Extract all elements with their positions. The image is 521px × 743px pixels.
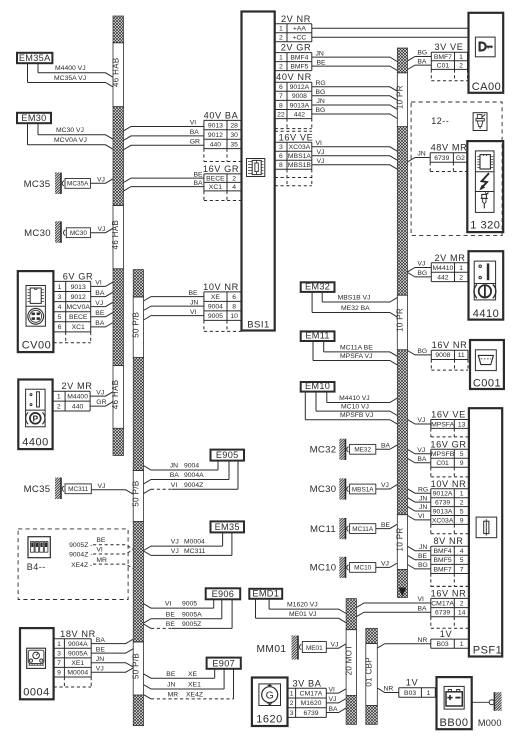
wire XE BE from 50 P/B to BSI1 xyxy=(144,290,204,301)
ground MM01 xyxy=(257,636,327,660)
svg-text:16V GR: 16V GR xyxy=(430,439,466,449)
svg-text:M1620: M1620 xyxy=(301,700,322,707)
svg-text:MBS1A: MBS1A xyxy=(352,486,374,493)
svg-text:VJ: VJ xyxy=(98,226,106,233)
svg-text:JN: JN xyxy=(190,299,198,306)
svg-text:MC35A VJ: MC35A VJ xyxy=(54,75,86,82)
svg-text:1: 1 xyxy=(460,641,464,648)
svg-text:0004: 0004 xyxy=(23,687,49,699)
svg-text:BA: BA xyxy=(381,443,391,450)
svg-text:B03: B03 xyxy=(437,641,449,648)
svg-text:9012A: 9012A xyxy=(433,491,453,498)
svg-text:XC03A: XC03A xyxy=(432,517,454,524)
svg-text:1: 1 xyxy=(459,54,463,61)
svg-text:3V BA: 3V BA xyxy=(292,678,321,688)
ECU BSI1 xyxy=(242,12,275,331)
svg-text:M4400: M4400 xyxy=(67,394,88,401)
svg-text:VI: VI xyxy=(165,601,172,608)
svg-text:3V VE: 3V VE xyxy=(434,42,463,52)
wire 9008 BG to 10 PR xyxy=(312,89,398,100)
wire 9004Z VI from B4 to 50 P/B (dashed) xyxy=(69,547,133,559)
svg-text:BA: BA xyxy=(417,456,427,463)
svg-text:NR: NR xyxy=(384,686,394,693)
ignition switch CA00 xyxy=(469,13,504,93)
connector table 1V (BB00) xyxy=(399,678,436,698)
svg-text:BMF7: BMF7 xyxy=(434,566,452,573)
generator 1620 xyxy=(252,678,288,727)
svg-text:VI: VI xyxy=(95,280,102,287)
svg-text:1: 1 xyxy=(427,690,431,697)
svg-text:10 PR: 10 PR xyxy=(395,85,404,109)
svg-text:10: 10 xyxy=(230,313,238,320)
wire B03 NR to battery xyxy=(377,686,399,693)
svg-text:9013A: 9013A xyxy=(433,509,453,516)
svg-text:M1620 VJ: M1620 VJ xyxy=(287,602,318,609)
svg-text:BECE: BECE xyxy=(206,176,225,183)
wire 6739 BA from 20 MOT to PSF1 xyxy=(357,605,431,616)
wire 9013A JN from 10 PR to PSF1 xyxy=(408,504,431,511)
svg-text:35: 35 xyxy=(230,141,238,148)
wire 442 BG to 10 PR xyxy=(312,107,398,118)
svg-text:6: 6 xyxy=(279,153,283,160)
svg-text:BE: BE xyxy=(166,671,176,678)
svg-text:16V VE: 16V VE xyxy=(279,132,314,142)
svg-text:NR: NR xyxy=(418,637,428,644)
splice EM35A xyxy=(17,53,52,63)
svg-text:442: 442 xyxy=(437,274,449,281)
svg-text:MCV0A: MCV0A xyxy=(66,304,90,311)
svg-text:BMF7: BMF7 xyxy=(434,54,452,61)
wire M4400 VJ from EM35A to 46 HAB xyxy=(38,63,113,77)
svg-text:VJ: VJ xyxy=(97,176,105,183)
svg-text:20 MOT: 20 MOT xyxy=(344,644,353,675)
svg-text:48V MR: 48V MR xyxy=(431,143,468,153)
ground MC35 (top) xyxy=(24,173,113,195)
wire 6739 JN from 10 PR to 1320 table xyxy=(408,151,431,162)
svg-text:9004A: 9004A xyxy=(68,641,88,648)
svg-text:5: 5 xyxy=(460,451,464,458)
svg-text:BE: BE xyxy=(317,59,327,66)
wire BMF5 BE from 10 PR to PSF1 xyxy=(408,553,431,560)
svg-text:BE: BE xyxy=(194,171,204,178)
svg-text:JN: JN xyxy=(316,50,324,57)
svg-text:46 HAB: 46 HAB xyxy=(111,380,120,410)
svg-text:GR: GR xyxy=(96,399,106,406)
connector table 16V VE (PSF1) xyxy=(431,410,469,437)
svg-text:BE: BE xyxy=(381,522,391,529)
handbrake unit 4400 xyxy=(18,380,52,450)
svg-text:9013: 9013 xyxy=(208,123,223,130)
diagnostic connector C001 xyxy=(470,340,504,390)
wire ME01 VJ from MM01 to 20 MOT xyxy=(326,641,346,648)
connector table 16V GR (PSF1) xyxy=(430,439,469,477)
svg-text:MC10: MC10 xyxy=(310,563,337,574)
switch unit 4410 xyxy=(469,251,504,320)
svg-text:VI: VI xyxy=(96,547,103,554)
svg-text:RG: RG xyxy=(316,80,326,87)
svg-text:BA: BA xyxy=(95,290,105,297)
wire 9012A RG from 10 PR to PSF1 xyxy=(408,486,431,493)
svg-text:2: 2 xyxy=(279,35,283,42)
svg-text:1: 1 xyxy=(279,26,283,33)
wire M0004 VJ from 50 P/B to EM35 xyxy=(144,532,223,550)
wire MC11A BE from EM11 to 10 PR xyxy=(324,341,398,356)
svg-text:EM10: EM10 xyxy=(305,381,330,391)
svg-text:B4--: B4-- xyxy=(27,562,46,572)
svg-text:MC35: MC35 xyxy=(24,484,51,495)
control unit CV00 xyxy=(18,271,54,352)
svg-text:14: 14 xyxy=(458,610,466,617)
svg-text:22: 22 xyxy=(277,112,285,119)
wire MPSFA VJ from EM11 to 10 PR xyxy=(313,341,397,365)
svg-text:BE: BE xyxy=(418,553,428,560)
wire MC10 VJ from EM10 to 10 PR xyxy=(316,392,397,416)
svg-text:MC35: MC35 xyxy=(24,179,51,190)
injector icon box xyxy=(473,113,487,131)
svg-text:9013A: 9013A xyxy=(290,102,310,109)
wire 440 GR from 4400 to 46 HAB xyxy=(90,399,113,406)
svg-text:VI: VI xyxy=(171,482,178,489)
svg-text:M4410: M4410 xyxy=(433,265,454,272)
svg-text:BA: BA xyxy=(95,320,105,327)
svg-text:XE4Z -: XE4Z - xyxy=(71,562,92,569)
svg-text:GR: GR xyxy=(190,139,200,146)
svg-text:6739: 6739 xyxy=(434,155,449,162)
svg-text:BA: BA xyxy=(96,637,106,644)
svg-text:C01: C01 xyxy=(437,63,450,70)
svg-text:6739: 6739 xyxy=(435,500,450,507)
svg-text:1V: 1V xyxy=(406,678,419,688)
svg-text:MPSFB VJ: MPSFB VJ xyxy=(340,412,373,419)
svg-text:6: 6 xyxy=(58,324,62,331)
svg-text:BG: BG xyxy=(316,107,326,114)
svg-text:BMF4: BMF4 xyxy=(290,55,308,62)
svg-text:9005Z: 9005Z xyxy=(182,621,201,628)
svg-text:4: 4 xyxy=(58,304,62,311)
svg-text:6739: 6739 xyxy=(303,710,318,717)
svg-text:VJ: VJ xyxy=(381,561,389,568)
svg-text:9005: 9005 xyxy=(208,313,223,320)
connector table 48V MR (1320) xyxy=(430,143,467,172)
connector table 16V GR (BSI1) xyxy=(203,164,242,201)
wire 9005 VI from 50 P/B to BSI1 xyxy=(144,309,204,320)
svg-text:MC30 VJ: MC30 VJ xyxy=(56,127,84,134)
connector table 40V NR (BSI1) xyxy=(275,72,312,128)
svg-text:1620: 1620 xyxy=(256,714,282,726)
svg-text:G: G xyxy=(266,690,274,702)
wire MBS1B VJ from EM32 to 10 PR xyxy=(322,292,397,302)
svg-text:RG: RG xyxy=(418,486,428,493)
svg-text:EM35A: EM35A xyxy=(19,53,51,63)
wire BECE BE from CV00 to 46 HAB xyxy=(91,310,113,317)
svg-text:442: 442 xyxy=(294,112,306,119)
connector table 3V BA (1620) xyxy=(288,678,327,717)
svg-text:2: 2 xyxy=(460,600,464,607)
svg-text:M4400 VJ: M4400 VJ xyxy=(55,65,86,72)
ground MC35 (lower) xyxy=(24,478,134,500)
svg-text:VJ: VJ xyxy=(417,261,425,268)
svg-text:9: 9 xyxy=(460,460,464,467)
svg-text:BA: BA xyxy=(170,472,180,479)
wire BMF4 JN from 10 PR to PSF1 xyxy=(408,544,431,551)
ground MC32 xyxy=(310,439,398,460)
wire B03 NR from 01 CBP to PSF1 xyxy=(377,637,431,648)
connector table 2V MR (4400) xyxy=(53,381,93,411)
connector table 16V NR (C001) xyxy=(431,340,468,370)
svg-text:MPSFA: MPSFA xyxy=(431,421,455,428)
svg-text:XE1: XE1 xyxy=(71,660,84,667)
wire 442 BG from 10 PR to 4410 table xyxy=(408,270,432,277)
svg-text:MC35A: MC35A xyxy=(67,181,89,188)
svg-text:9012: 9012 xyxy=(71,294,86,301)
svg-text:BG: BG xyxy=(417,270,427,277)
wire BMF7 BG from 10 PR to CA00 table xyxy=(408,50,432,61)
svg-text:10V NR: 10V NR xyxy=(203,282,239,292)
svg-text:MBS1B: MBS1B xyxy=(288,162,312,169)
svg-text:JN: JN xyxy=(167,682,175,689)
svg-text:VJ: VJ xyxy=(417,447,425,454)
svg-text:CV00: CV00 xyxy=(22,340,52,352)
ground MC11 xyxy=(310,518,397,539)
svg-text:1: 1 xyxy=(279,55,283,62)
wire MCV0A VJ from CV00 to 46 HAB xyxy=(91,300,113,307)
svg-text:50 P/B: 50 P/B xyxy=(131,312,140,338)
wire 9005Z BE from 50 P/B to E906 (part dashed) xyxy=(144,599,233,628)
wire MBS1A VJ to 10 PR xyxy=(312,149,398,160)
svg-text:8: 8 xyxy=(232,304,236,311)
svg-text:VJ: VJ xyxy=(171,548,179,555)
svg-text:9004: 9004 xyxy=(208,304,223,311)
wire MPSFB VJ from 10 PR to PSF1 xyxy=(408,447,431,454)
wire 9005 VI from 50 P/B to E906 xyxy=(144,599,214,608)
svg-text:JN: JN xyxy=(96,656,104,663)
svg-text:01 CBP: 01 CBP xyxy=(365,657,374,687)
svg-text:46 HAB: 46 HAB xyxy=(111,57,120,87)
wire XC03A VI to 10 PR xyxy=(312,140,398,151)
ground MC10 xyxy=(310,557,398,578)
svg-text:EMD1: EMD1 xyxy=(252,588,279,598)
svg-text:10V NR: 10V NR xyxy=(431,479,467,489)
svg-text:8: 8 xyxy=(279,162,283,169)
svg-text:VI: VI xyxy=(316,140,323,147)
svg-text:JN: JN xyxy=(317,98,325,105)
battery BB00 xyxy=(437,677,472,729)
svg-text:9004Z -: 9004Z - xyxy=(69,552,92,559)
svg-text:+CC: +CC xyxy=(293,35,307,42)
wire +AA to CA00 xyxy=(312,27,469,29)
wire XE1 JN from 50 P/B to E907 xyxy=(144,669,225,689)
svg-text:VJ: VJ xyxy=(96,666,104,673)
wire 9008 BG from 10 PR to C001 table xyxy=(408,348,432,355)
wire M1620 VJ from EMD1 to 20 MOT xyxy=(269,599,346,614)
connector table 10V NR (BSI1) xyxy=(203,282,241,332)
splice EM32 xyxy=(301,282,335,292)
svg-text:3: 3 xyxy=(290,710,294,717)
svg-text:BECE: BECE xyxy=(69,314,88,321)
svg-text:XC03A: XC03A xyxy=(289,144,311,151)
svg-text:VJ: VJ xyxy=(171,539,179,546)
10 PR bar end arrow xyxy=(399,588,407,597)
splice EMD1 xyxy=(249,588,282,598)
svg-text:JN: JN xyxy=(419,504,427,511)
svg-text:2V MR: 2V MR xyxy=(61,381,92,391)
svg-text:9: 9 xyxy=(57,670,61,677)
svg-text:M0004: M0004 xyxy=(67,670,88,677)
svg-text:2: 2 xyxy=(459,274,463,281)
svg-text:6739: 6739 xyxy=(435,610,450,617)
svg-text:46 HAB: 46 HAB xyxy=(111,220,120,250)
harness bar 50 P/B xyxy=(131,270,143,726)
svg-text:9004: 9004 xyxy=(184,463,199,470)
connector table 16V VE (BSI1) xyxy=(275,131,314,185)
svg-text:30: 30 xyxy=(230,132,238,139)
svg-text:VJ: VJ xyxy=(381,482,389,489)
svg-text:9008: 9008 xyxy=(435,352,450,359)
svg-text:XC1: XC1 xyxy=(209,184,222,191)
ground MC30 (middle) xyxy=(310,478,398,499)
wire 9004 JN from 50 P/B to BSI1 xyxy=(144,299,204,310)
svg-text:4: 4 xyxy=(460,548,464,555)
svg-text:ME01: ME01 xyxy=(306,645,323,652)
svg-text:VJ: VJ xyxy=(98,483,106,490)
connector table 10V NR (PSF1) xyxy=(431,479,469,534)
svg-text:4410: 4410 xyxy=(473,308,499,320)
svg-text:VI: VI xyxy=(190,120,197,127)
splice EM10 xyxy=(301,381,335,391)
wire 9004Z VI from 50 P/B to E905 (part dashed) xyxy=(144,461,239,494)
connector table 18V NR (0004) xyxy=(54,629,96,687)
ground MC30 (top) xyxy=(24,221,113,243)
svg-text:7: 7 xyxy=(57,660,61,667)
svg-text:1 320: 1 320 xyxy=(470,220,500,232)
svg-text:CA00: CA00 xyxy=(472,81,502,93)
wire 9013 VI from CV00 to 46 HAB xyxy=(91,280,113,287)
svg-text:16V NR: 16V NR xyxy=(432,340,468,350)
svg-text:18V NR: 18V NR xyxy=(60,629,96,639)
svg-text:EM11: EM11 xyxy=(305,331,330,341)
svg-text:9008: 9008 xyxy=(292,93,307,100)
svg-text:JN: JN xyxy=(419,495,427,502)
svg-text:8: 8 xyxy=(279,102,283,109)
svg-text:JN: JN xyxy=(170,463,178,470)
svg-text:MC11A: MC11A xyxy=(352,526,374,533)
connector table 40V BA (BSI1) xyxy=(204,110,242,161)
svg-text:G2: G2 xyxy=(456,155,465,162)
svg-text:MBS1B VJ: MBS1B VJ xyxy=(338,294,371,301)
svg-text:MC30: MC30 xyxy=(70,230,87,237)
wire XC03A VI from 10 PR to PSF1 xyxy=(408,513,431,520)
svg-text:9005Z -: 9005Z - xyxy=(69,542,92,549)
svg-text:VJ: VJ xyxy=(96,389,104,396)
wire XE1 JN from 0004 to 50 P/B xyxy=(91,656,133,667)
svg-text:XC1: XC1 xyxy=(72,324,85,331)
svg-text:2: 2 xyxy=(290,700,294,707)
wire MPSFB VJ from EM10 to 10 PR xyxy=(305,392,397,425)
wire MC35A VJ from EM35A to 46 HAB xyxy=(28,63,114,87)
svg-text:2: 2 xyxy=(279,64,283,71)
svg-text:5: 5 xyxy=(460,557,464,564)
splice EM30 xyxy=(17,113,51,123)
svg-text:16V NR: 16V NR xyxy=(431,588,467,598)
harness bar 10 PR xyxy=(395,48,407,598)
svg-text:BA: BA xyxy=(418,605,428,612)
svg-text:16V VE: 16V VE xyxy=(431,410,466,420)
svg-text:1: 1 xyxy=(290,691,294,698)
svg-text:M0004: M0004 xyxy=(184,539,205,546)
svg-text:EM35: EM35 xyxy=(215,522,240,532)
svg-text:MC11A BE: MC11A BE xyxy=(340,344,373,351)
svg-text:VJ: VJ xyxy=(95,300,103,307)
svg-text:40V BA: 40V BA xyxy=(204,110,239,120)
svg-text:3: 3 xyxy=(279,144,283,151)
svg-text:MC311: MC311 xyxy=(184,548,206,555)
svg-text:BE: BE xyxy=(189,290,199,297)
svg-text:28: 28 xyxy=(230,123,238,130)
svg-text:1: 1 xyxy=(459,265,463,272)
assembly box 12-- xyxy=(411,102,502,236)
splice EM11 xyxy=(301,331,335,341)
svg-text:BMF5: BMF5 xyxy=(434,557,452,564)
wire 440 GR from 46 HAB to BSI1 xyxy=(124,139,204,150)
wire 9004A BA from 0004 to 50 P/B xyxy=(91,637,133,644)
svg-text:ME32 BA: ME32 BA xyxy=(341,305,370,312)
svg-text:9: 9 xyxy=(460,517,464,524)
wire MPSFA VJ from 10 PR to PSF1 xyxy=(408,417,431,424)
svg-text:XE: XE xyxy=(211,294,221,301)
svg-text:9012A: 9012A xyxy=(290,84,310,91)
svg-text:4400: 4400 xyxy=(22,437,48,449)
svg-text:EM32: EM32 xyxy=(305,282,330,292)
svg-text:11: 11 xyxy=(458,352,465,359)
svg-text:MPSFB: MPSFB xyxy=(431,451,455,458)
svg-text:8V NR: 8V NR xyxy=(433,536,463,546)
wire CM17A VI from 1620 to 20 MOT xyxy=(326,686,346,693)
wire 9005Z BE from B4 to 50 P/B (dashed) xyxy=(69,537,133,549)
svg-text:MC10: MC10 xyxy=(354,565,371,572)
assembly box B4-- xyxy=(18,529,128,600)
wire BMF5 BE to 10 PR xyxy=(312,59,398,70)
svg-text:BE: BE xyxy=(166,611,176,618)
svg-text:2: 2 xyxy=(57,403,61,410)
wire XC1 BA from CV00 to 46 HAB xyxy=(91,320,113,327)
svg-text:BA: BA xyxy=(190,129,200,136)
svg-text:BB00: BB00 xyxy=(440,717,469,729)
wire BECE BE from 46 HAB to BSI1 xyxy=(124,171,204,182)
svg-text:VI: VI xyxy=(418,513,425,520)
svg-text:C01: C01 xyxy=(436,460,449,467)
wire BMF4 JN to 10 PR xyxy=(312,50,398,61)
svg-text:6: 6 xyxy=(232,294,236,301)
splice E907 xyxy=(207,658,241,669)
svg-text:E907: E907 xyxy=(212,658,235,668)
svg-text:5: 5 xyxy=(460,509,464,516)
wire BMF7 BG from 10 PR to PSF1 xyxy=(408,562,431,569)
svg-text:VI: VI xyxy=(329,686,336,693)
wire 9013 VI from 46 HAB to BSI1 xyxy=(124,120,204,131)
svg-text:CM17A: CM17A xyxy=(431,600,454,607)
wire 9004A BA from 50 P/B to E905 xyxy=(144,461,230,484)
wire C01 BA from 10 PR to CA00 table xyxy=(408,58,432,69)
svg-text:ME32: ME32 xyxy=(354,447,371,454)
svg-text:9012: 9012 xyxy=(208,132,223,139)
svg-text:BA: BA xyxy=(329,706,339,713)
svg-text:4: 4 xyxy=(232,184,236,191)
svg-text:13: 13 xyxy=(458,421,466,428)
connector table 2V MR (4410) xyxy=(431,253,468,282)
wire C01 BA from 10 PR to PSF1 xyxy=(408,456,431,463)
svg-text:40V NR: 40V NR xyxy=(276,72,312,82)
svg-text:BE: BE xyxy=(96,537,106,544)
